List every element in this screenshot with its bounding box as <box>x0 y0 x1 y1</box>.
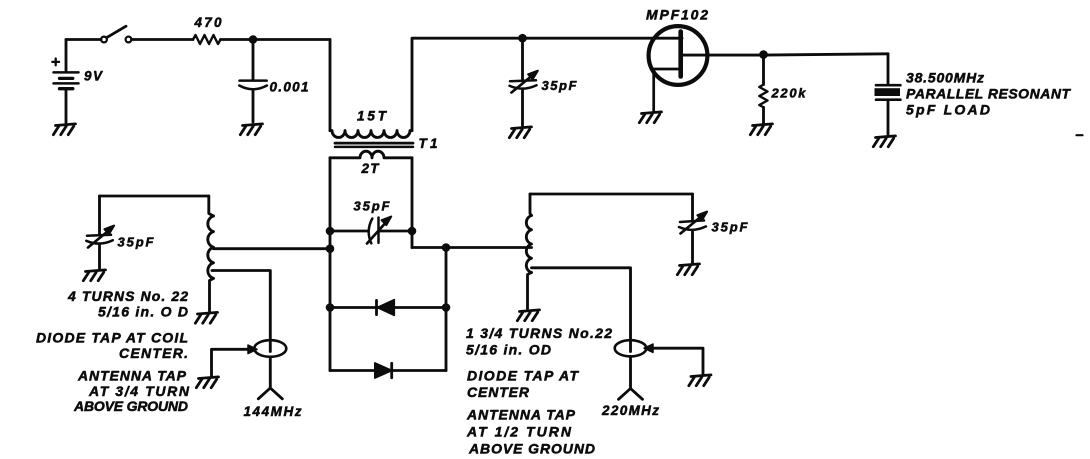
ground (144 coil) <box>195 312 217 323</box>
capacitor C4 35pF (144 trimmer) <box>86 196 114 269</box>
wire diode right vertical <box>445 248 448 371</box>
ground (220k) <box>750 124 772 135</box>
stray mark right edge <box>1077 134 1083 136</box>
svg-text:ANTENNA TAP: ANTENNA TAP <box>77 368 187 384</box>
connector J1 (144 antenna jack) <box>212 340 287 375</box>
battery B1 9V <box>52 40 78 123</box>
svg-text:0.001: 0.001 <box>270 80 309 95</box>
capacitor C1 0.001 <box>239 40 267 123</box>
svg-text:DIODE TAP AT COIL: DIODE TAP AT COIL <box>36 330 188 346</box>
node F (144 tap on net-L) <box>326 244 335 253</box>
connector J2 (220 antenna jack) <box>615 340 703 374</box>
node net-L vertical (2T left leg down to diodes) <box>329 158 332 371</box>
capacitor C2 35pF (gate trimmer) <box>510 38 538 125</box>
crystal Y1 <box>875 54 901 135</box>
wire 144 antenna tap <box>212 271 270 352</box>
resistor R1 470 <box>193 35 221 44</box>
svg-text:5/16 in. O D: 5/16 in. O D <box>98 304 188 320</box>
svg-text:DIODE TAP AT: DIODE TAP AT <box>467 368 579 384</box>
144MHz tank: top wire <box>100 195 209 198</box>
svg-text:2T: 2T <box>361 161 381 176</box>
ground (source) <box>639 112 661 123</box>
diode D2 (points right) <box>330 363 446 378</box>
wire gate rail (15T right end up and to MPF102 gate) <box>412 38 682 130</box>
svg-text:5/16 in. OD: 5/16 in. OD <box>466 342 551 358</box>
node D (left of mixer cap) <box>326 227 335 236</box>
node net-R vertical (2T right leg down) <box>411 158 414 248</box>
transformer T1 secondary 2T <box>330 151 412 158</box>
wire 144 tap to net-L <box>214 247 331 250</box>
antenna ANT1 144MHz <box>258 357 282 399</box>
wire switch to resistor <box>132 38 194 41</box>
svg-text:470: 470 <box>194 15 222 30</box>
resistor R2 220k <box>759 55 767 124</box>
wire battery to switch <box>66 38 101 41</box>
wire rail corner down to transformer primary <box>329 40 332 131</box>
transistor Q1 MPF102 <box>649 26 708 111</box>
node G (diode right leg junction) <box>442 243 451 252</box>
coil L2 (220MHz) <box>526 194 531 309</box>
svg-text:AT 1/2 TURN: AT 1/2 TURN <box>466 424 572 440</box>
transformer T1 core <box>335 143 413 147</box>
ground (crystal) <box>873 136 895 147</box>
svg-text:1 3/4 TURNS No.22: 1 3/4 TURNS No.22 <box>466 325 612 341</box>
svg-text:ABOVE GROUND: ABOVE GROUND <box>73 398 188 414</box>
220MHz tank: top wire <box>530 193 693 196</box>
svg-text:35pF: 35pF <box>354 199 391 214</box>
svg-text:ANTENNA TAP: ANTENNA TAP <box>466 407 576 423</box>
ground (220 cap) <box>677 264 699 275</box>
ground (144 jack) <box>196 377 218 388</box>
svg-text:9V: 9V <box>84 69 103 84</box>
svg-text:220MHz: 220MHz <box>601 403 659 418</box>
svg-text:4 TURNS No. 22: 4 TURNS No. 22 <box>67 288 188 304</box>
diode D1 (points left) <box>330 300 446 316</box>
svg-text:CENTER.: CENTER. <box>119 345 188 361</box>
node C (drain junction) <box>759 50 768 59</box>
node I (diode row right) <box>442 303 451 312</box>
svg-text:ABOVE GROUND: ABOVE GROUND <box>468 441 595 457</box>
capacitor C3 35pF (mixer trimmer) <box>330 217 412 244</box>
ground (220 jack) <box>689 375 711 386</box>
wire resistor to corner, node at cap <box>221 38 331 41</box>
ground (0.001 cap) <box>240 124 262 135</box>
node H (diode row left) <box>326 303 335 312</box>
svg-text:T1: T1 <box>419 136 438 151</box>
svg-text:15T: 15T <box>357 109 388 124</box>
ground (battery) <box>53 124 75 135</box>
transformer T1 primary 15T <box>330 131 412 138</box>
antenna ANT2 220MHz <box>619 356 643 399</box>
svg-text:CENTER: CENTER <box>467 384 530 400</box>
svg-text:AT 3/4 TURN: AT 3/4 TURN <box>88 383 190 399</box>
svg-text:144MHz: 144MHz <box>244 404 302 419</box>
svg-text:MPF102: MPF102 <box>646 7 708 23</box>
node A (470/0.001 junction) <box>249 35 258 44</box>
svg-text:35pF: 35pF <box>542 78 578 93</box>
ground (144 cap) <box>83 270 105 281</box>
wire net-R corner to 220 coil tap <box>412 246 532 249</box>
svg-text:PARALLEL RESONANT: PARALLEL RESONANT <box>906 86 1071 102</box>
coil L1 (144MHz) <box>208 196 214 311</box>
wire 220 antenna tap <box>532 268 631 352</box>
switch S1 <box>101 26 131 42</box>
svg-text:38.500MHz: 38.500MHz <box>906 70 984 86</box>
ground (220 coil) <box>517 310 539 321</box>
svg-text:220k: 220k <box>771 86 807 101</box>
capacitor C5 35pF (220 trimmer) <box>679 194 707 263</box>
svg-text:35pF: 35pF <box>712 220 749 235</box>
svg-text:35pF: 35pF <box>118 235 155 250</box>
node B (gate cap junction) <box>518 34 527 43</box>
wire drain to crystal <box>681 54 888 55</box>
svg-text:5pF LOAD: 5pF LOAD <box>906 102 990 118</box>
node E (right of mixer cap) <box>408 227 417 236</box>
ground (gate cap) <box>509 127 531 138</box>
